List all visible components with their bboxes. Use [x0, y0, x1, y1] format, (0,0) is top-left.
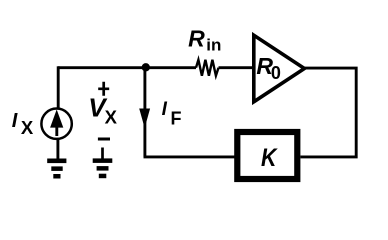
- ground under V_X: [93, 158, 113, 163]
- svg-text:F: F: [171, 109, 182, 129]
- op-amp buffer triangle U1: [254, 35, 305, 102]
- svg-text:in: in: [206, 35, 221, 54]
- svg-text:0: 0: [271, 63, 281, 83]
- wire amplifier output right and down to K box: [301, 68, 357, 157]
- ground under current source: [47, 159, 66, 164]
- wire bottom horizontal from I_F branch to K box: [144, 155, 235, 158]
- wire left vertical from top wire to current source: [57, 66, 60, 108]
- stub wire V_X reference to ground: [101, 148, 104, 160]
- label - of V_X: [98, 138, 110, 141]
- label + of V_X: [98, 82, 109, 96]
- wire top horizontal from source node to resistor: [58, 66, 196, 69]
- svg-text:R: R: [188, 26, 205, 52]
- wire I_F vertical from dot to bottom wire: [143, 68, 146, 157]
- node junction dot: [142, 63, 150, 71]
- svg-text:X: X: [105, 106, 118, 127]
- wire current source to ground: [56, 138, 59, 159]
- current source I_X circle: [41, 109, 71, 139]
- svg-text:X: X: [21, 117, 34, 138]
- arrowhead of I_F current: [139, 109, 150, 129]
- feedback block K: [237, 132, 297, 179]
- svg-text:I: I: [162, 99, 168, 120]
- current source arrow (up): [55, 127, 58, 137]
- resistor R_in zigzag: [196, 60, 219, 76]
- wire resistor to amplifier: [219, 66, 253, 69]
- svg-text:K: K: [261, 144, 278, 172]
- svg-text:I: I: [12, 110, 18, 132]
